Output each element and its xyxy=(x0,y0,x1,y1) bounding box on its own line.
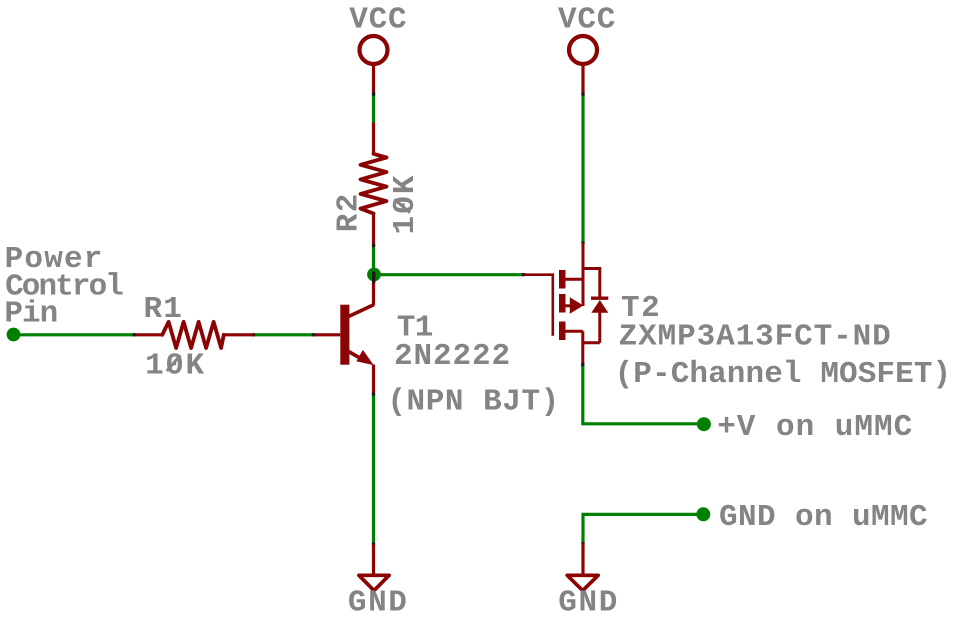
wire T1 emitter to GND xyxy=(372,394,375,545)
svg-text:ZXMP3A13FCT-ND: ZXMP3A13FCT-ND xyxy=(619,320,892,355)
ground GND (left) xyxy=(348,544,409,620)
svg-text:Pin: Pin xyxy=(4,297,57,332)
wire R2 to node xyxy=(372,245,375,276)
svg-text:(NPN BJT): (NPN BJT) xyxy=(387,384,559,419)
svg-text:+V on uMMC: +V on uMMC xyxy=(717,410,913,445)
wire GND net (right) xyxy=(583,514,702,543)
svg-text:10K: 10K xyxy=(388,174,423,235)
resistor R2 xyxy=(332,123,423,246)
svg-text:(P-Channel MOSFET): (P-Channel MOSFET) xyxy=(615,357,952,392)
svg-text:GND: GND xyxy=(348,586,409,620)
supply symbol VCC (left, for R2) xyxy=(349,2,407,95)
wire node to T2 gate xyxy=(374,273,524,276)
svg-text:VCC: VCC xyxy=(349,2,407,37)
supply symbol VCC (right, for T2) xyxy=(558,2,616,95)
wire pin to R1 xyxy=(14,333,135,336)
resistor R1 xyxy=(134,292,253,384)
wire T2 drain to +V xyxy=(583,364,702,424)
pin tip at gate xyxy=(522,273,525,276)
wire VCC to R2 xyxy=(372,94,375,123)
node junction dot xyxy=(367,268,381,282)
node +V xyxy=(697,417,711,431)
wire VCC to T2 source xyxy=(581,94,584,244)
svg-text:R2: R2 xyxy=(332,192,367,232)
svg-text:R1: R1 xyxy=(144,292,184,327)
transistor T2 (P-channel MOSFET) xyxy=(524,243,951,392)
svg-text:GND on uMMC: GND on uMMC xyxy=(719,500,928,535)
svg-text:2N2222: 2N2222 xyxy=(394,339,511,374)
node GND on uMMC xyxy=(696,507,710,521)
svg-text:VCC: VCC xyxy=(558,2,616,37)
svg-text:10K: 10K xyxy=(145,349,206,384)
svg-text:GND: GND xyxy=(558,586,619,620)
node Power Control Pin xyxy=(7,328,21,342)
base wire: node to T1 xyxy=(253,333,312,336)
pin tip junction xyxy=(372,93,375,96)
ground GND (right, uMMC) xyxy=(558,543,619,620)
transistor T1 xyxy=(314,272,560,420)
